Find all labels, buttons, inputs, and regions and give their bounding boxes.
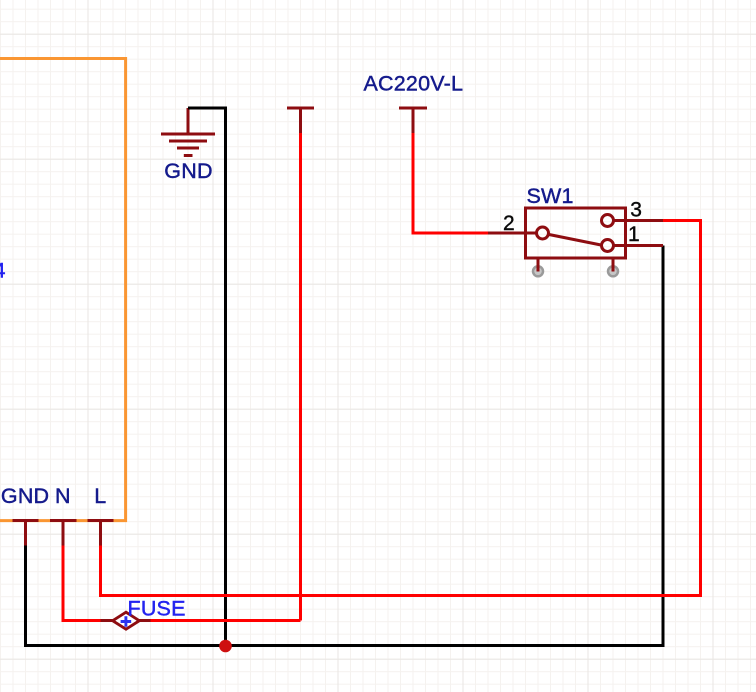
svg-text:2: 2 [503, 212, 515, 235]
svg-text:GND: GND [1, 484, 49, 508]
SW1 unconnected bottom pin (right) [608, 258, 618, 276]
wire (red: module N pin down to fuse left) [63, 546, 101, 621]
wire (red: AC220V-L down and right to SW1 pin 2) [413, 133, 488, 233]
ground symbol [161, 108, 215, 156]
SW1 unconnected bottom pin (left) [533, 258, 543, 276]
svg-text:1: 1 [628, 223, 640, 246]
svg-text:SW1: SW1 [527, 184, 574, 208]
pin GND of module (bottom) [13, 521, 39, 546]
fuse FUSE [101, 612, 151, 629]
wire (black: ground symbol to bottom bus) [188, 108, 226, 646]
wire (black: SW1 pin1 down right side to bottom bus, left to module GND pin) [26, 246, 664, 646]
wire (red: SW1 pin3 right, down right side, left and up to module L pin) [101, 221, 701, 596]
pin N of module (bottom) [50, 521, 77, 546]
svg-text:L: L [94, 484, 106, 508]
svg-text:FUSE: FUSE [128, 597, 186, 621]
switch SW1 body [526, 208, 626, 258]
SW1 lever [549, 235, 601, 246]
net port AC220V-L [399, 108, 427, 133]
svg-text:4: 4 [0, 259, 6, 283]
junction (red dot on black bus) [219, 640, 232, 653]
SW1 pin 3 [602, 215, 664, 227]
svg-text:N: N [55, 484, 71, 508]
svg-text:GND: GND [164, 159, 212, 183]
wire (red: port x=300 down to fuse line) [299, 133, 302, 621]
SW1 pin 2 [488, 227, 549, 239]
SW1 pin 1 [602, 240, 664, 252]
orange module outline (partial, off-canvas left) [0, 59, 126, 521]
svg-text:3: 3 [630, 199, 642, 222]
pin L of module (bottom) [88, 521, 114, 546]
net port (unnamed, x=300) [287, 108, 314, 133]
svg-text:AC220V-L: AC220V-L [364, 72, 464, 96]
wire (red: fuse right to x=300 vertical) [151, 619, 301, 622]
